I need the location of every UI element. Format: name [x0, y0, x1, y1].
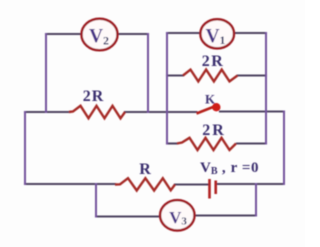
- svg-text:VB , r =0: VB , r =0: [200, 160, 259, 177]
- svg-text:2R: 2R: [202, 53, 225, 70]
- svg-text:K: K: [205, 92, 216, 107]
- svg-text:R: R: [139, 161, 151, 178]
- svg-text:2R: 2R: [202, 122, 226, 139]
- svg-text:2R: 2R: [83, 88, 105, 105]
